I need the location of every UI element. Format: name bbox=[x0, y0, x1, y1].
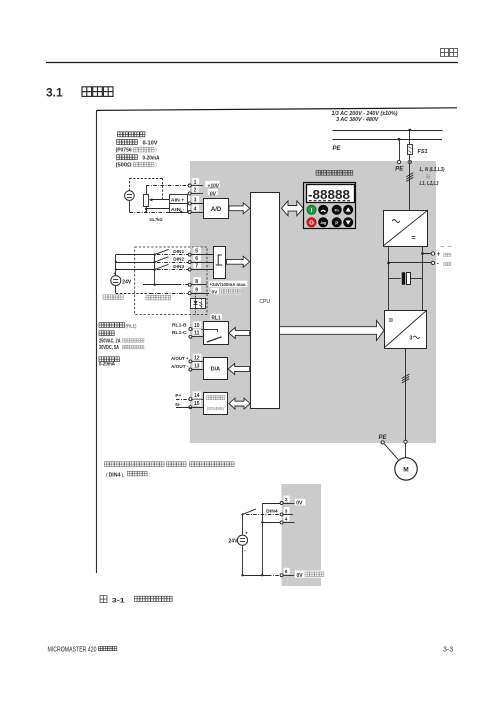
svg-text:6: 6 bbox=[195, 256, 198, 262]
svg-text:15: 15 bbox=[194, 401, 200, 407]
svg-text:3 AC 380V - 480V: 3 AC 380V - 480V bbox=[336, 117, 378, 123]
svg-text:L, N (L1,L3): L, N (L1,L3) bbox=[420, 167, 445, 173]
svg-text:3.1: 3.1 bbox=[46, 86, 63, 100]
svg-text::: : bbox=[149, 472, 150, 478]
svg-text:A/OUT -: A/OUT - bbox=[171, 364, 189, 370]
svg-text:0V: 0V bbox=[212, 289, 219, 295]
svg-text:4: 4 bbox=[285, 516, 288, 522]
svg-text:(RS485): (RS485) bbox=[207, 406, 224, 411]
svg-text:N-: N- bbox=[175, 402, 180, 408]
svg-text:3: 3 bbox=[285, 508, 288, 514]
svg-text:24V: 24V bbox=[229, 538, 239, 544]
svg-text:DIN2: DIN2 bbox=[173, 257, 184, 263]
svg-text:A/D: A/D bbox=[211, 207, 222, 213]
svg-text:M: M bbox=[403, 467, 408, 474]
svg-text:9: 9 bbox=[285, 569, 288, 575]
svg-text:12: 12 bbox=[194, 355, 200, 361]
svg-text:0V: 0V bbox=[297, 573, 304, 579]
svg-text:24V: 24V bbox=[122, 279, 132, 285]
svg-text:DIN1: DIN1 bbox=[173, 249, 184, 255]
svg-text:2: 2 bbox=[194, 188, 197, 194]
svg-text:FS1: FS1 bbox=[418, 149, 428, 155]
svg-text:DIN4: DIN4 bbox=[266, 509, 278, 515]
svg-text:P: P bbox=[335, 220, 338, 225]
svg-text:≥4.7kΩ: ≥4.7kΩ bbox=[150, 217, 163, 223]
svg-text:Fn: Fn bbox=[335, 208, 339, 212]
svg-text:0V: 0V bbox=[296, 501, 303, 507]
svg-text:0-20mA: 0-20mA bbox=[99, 362, 115, 368]
svg-text:RL1: RL1 bbox=[212, 315, 221, 321]
svg-text:3: 3 bbox=[194, 198, 197, 204]
svg-text:3-3: 3-3 bbox=[443, 647, 453, 654]
svg-text:AIN -: AIN - bbox=[171, 207, 185, 213]
svg-text:0V: 0V bbox=[210, 191, 217, 197]
svg-text:RL1-B: RL1-B bbox=[172, 322, 187, 328]
svg-text:5: 5 bbox=[195, 249, 198, 255]
svg-text:3-1: 3-1 bbox=[112, 598, 125, 605]
svg-text:7: 7 bbox=[195, 264, 198, 270]
svg-text:13: 13 bbox=[194, 364, 200, 370]
svg-text:+: + bbox=[437, 251, 441, 258]
svg-text:0-20mA: 0-20mA bbox=[143, 156, 160, 162]
svg-text:): ) bbox=[155, 163, 157, 169]
svg-text:=: = bbox=[412, 235, 416, 242]
svg-text:+10V: +10V bbox=[208, 184, 220, 190]
svg-text:O: O bbox=[309, 221, 314, 227]
svg-text:2: 2 bbox=[285, 497, 288, 503]
svg-text:D/A: D/A bbox=[211, 367, 221, 373]
svg-text:DIN4: DIN4 bbox=[109, 472, 121, 478]
svg-text:1: 1 bbox=[194, 180, 197, 186]
svg-text:P+: P+ bbox=[175, 393, 181, 399]
svg-text:AIN +: AIN + bbox=[171, 197, 185, 203]
svg-text:30VDC, 5A: 30VDC, 5A bbox=[99, 345, 119, 351]
svg-text:8: 8 bbox=[195, 279, 198, 285]
svg-text:0-10V: 0-10V bbox=[143, 140, 159, 146]
svg-text:4: 4 bbox=[194, 206, 197, 212]
svg-text:): ) bbox=[155, 148, 157, 154]
svg-text:(500Ω: (500Ω bbox=[116, 163, 132, 169]
svg-text:A/OUT +: A/OUT + bbox=[171, 356, 189, 362]
svg-text:14: 14 bbox=[194, 393, 200, 399]
svg-text:PE: PE bbox=[379, 435, 388, 441]
svg-text:PE: PE bbox=[395, 167, 404, 173]
svg-text:DIN3: DIN3 bbox=[173, 264, 184, 270]
svg-text:(RL1): (RL1) bbox=[126, 323, 137, 329]
svg-text:RL1-C: RL1-C bbox=[172, 330, 187, 336]
svg-text:MICROMASTER 420: MICROMASTER 420 bbox=[48, 646, 97, 653]
svg-text:PE: PE bbox=[333, 146, 342, 152]
svg-text:=: = bbox=[389, 316, 394, 325]
svg-text:+24V/100mA max.: +24V/100mA max. bbox=[210, 282, 247, 287]
svg-text:L1, L2,L3: L1, L2,L3 bbox=[420, 181, 439, 187]
svg-text:11: 11 bbox=[194, 331, 200, 337]
svg-text:Jog: Jog bbox=[320, 221, 326, 225]
svg-text:-: - bbox=[437, 260, 439, 267]
svg-text:),: ), bbox=[122, 472, 125, 478]
svg-text:-88888: -88888 bbox=[308, 187, 350, 202]
svg-text:10: 10 bbox=[194, 323, 200, 329]
svg-text:CPU: CPU bbox=[259, 299, 270, 305]
svg-text:250VAC, 2A: 250VAC, 2A bbox=[99, 338, 121, 344]
svg-text:(P0756: (P0756 bbox=[116, 148, 132, 154]
svg-text:+: + bbox=[245, 530, 248, 535]
svg-text:9: 9 bbox=[195, 287, 198, 293]
